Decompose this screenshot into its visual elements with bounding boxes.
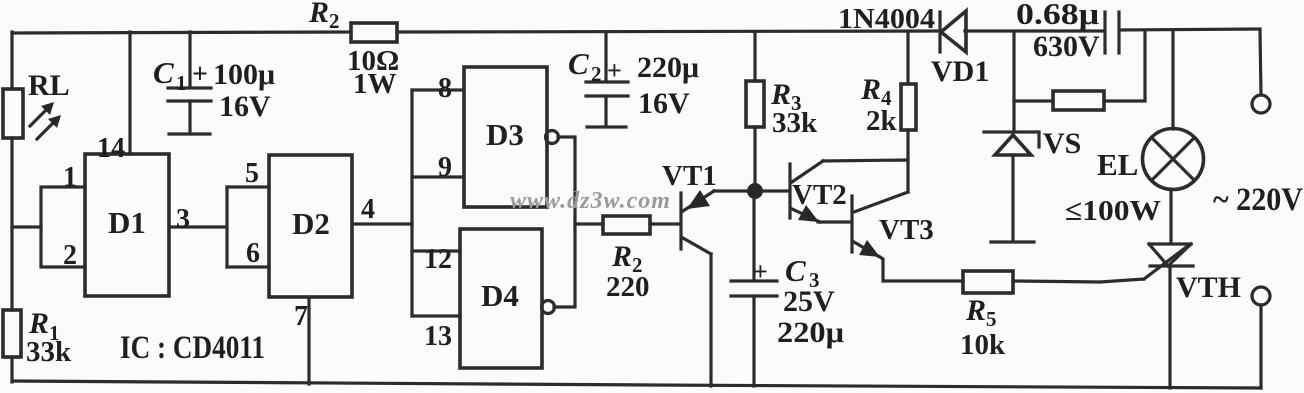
svg-text:IC : CD4011: IC : CD4011 (120, 330, 265, 366)
wire D4 pin13 stub (412, 314, 460, 317)
wire left rail upper (10, 32, 13, 89)
svg-text:1W: 1W (353, 68, 397, 100)
resistor R4 (860, 32, 916, 192)
wire VT1 collector down (709, 254, 712, 386)
svg-text:2: 2 (329, 9, 340, 33)
svg-text:33k: 33k (26, 336, 72, 368)
svg-text:25V: 25V (783, 285, 835, 318)
triac VTH (1144, 244, 1241, 304)
wire VT2 emitter to VT3 base (818, 220, 851, 223)
wire left rail lower (10, 357, 13, 382)
svg-text:4: 4 (361, 194, 375, 225)
svg-text:6: 6 (246, 238, 260, 269)
D4 output bubble (542, 301, 555, 314)
svg-text:D2: D2 (292, 206, 330, 241)
svg-text:220μ: 220μ (777, 316, 844, 349)
wire left rail middle (10, 138, 13, 310)
wire D4 output (554, 224, 575, 307)
gate D3 (464, 67, 547, 207)
svg-text:100μ: 100μ (213, 58, 275, 91)
node 14 wire (128, 32, 131, 154)
wire D1 input pin2 (41, 227, 85, 267)
resistor R1 (3, 307, 72, 368)
node junction dot (747, 183, 763, 199)
svg-text:VTH: VTH (1176, 271, 1241, 304)
svg-text:EL: EL (1097, 147, 1138, 182)
gate D2 (269, 155, 352, 297)
wire D3 output (558, 137, 575, 224)
svg-text:3: 3 (176, 204, 190, 235)
svg-text:R: R (860, 73, 881, 106)
photoresistor RL (3, 69, 70, 139)
svg-text:~ 220V: ~ 220V (1213, 182, 1303, 218)
svg-text:R: R (965, 294, 986, 327)
zener diode VS (984, 127, 1081, 242)
svg-text:R: R (308, 0, 329, 29)
gate D4 (460, 229, 542, 368)
diode VD1 (838, 3, 989, 88)
svg-text:RL: RL (28, 69, 70, 102)
svg-text:C: C (568, 46, 589, 81)
gate D1 (85, 154, 169, 296)
capacitor 0.68u 630V (1016, 0, 1119, 63)
svg-text:+: + (607, 56, 622, 85)
svg-text:VD1: VD1 (931, 55, 989, 88)
svg-text:1: 1 (63, 162, 77, 193)
svg-text:2: 2 (63, 240, 77, 271)
wire to base resistor (575, 222, 603, 225)
svg-text:+: + (192, 59, 208, 90)
wire top rail right of capacitor (1120, 29, 1260, 30)
svg-text:D3: D3 (486, 117, 524, 152)
terminal top right (1252, 31, 1270, 113)
svg-text:C: C (153, 55, 174, 90)
wire D3 D4 input bracket (410, 90, 413, 316)
wire D1 output pin3 (169, 225, 227, 228)
resistor R5 (960, 271, 1013, 361)
svg-text:VT2: VT2 (792, 179, 847, 211)
resistor R2 10ohm (308, 0, 399, 100)
svg-text:VS: VS (1043, 127, 1081, 160)
svg-text:D1: D1 (108, 205, 146, 240)
D3 output bubble (546, 131, 559, 144)
wire node to VT2 base (762, 189, 788, 192)
svg-text:8: 8 (438, 73, 452, 104)
svg-text:1: 1 (176, 71, 187, 95)
svg-text:5: 5 (245, 158, 259, 189)
wire VT2 collector horizontal (823, 160, 908, 161)
svg-text:www.dz3w.com: www.dz3w.com (510, 188, 671, 214)
svg-text:7: 7 (294, 301, 308, 332)
resistor R3 (746, 32, 818, 185)
svg-text:220μ: 220μ (637, 51, 699, 84)
wire D2 pin7 to ground rail (307, 297, 310, 384)
svg-text:10k: 10k (960, 329, 1006, 361)
wire top rail mid segment (397, 31, 940, 32)
wire top rail right of diode (965, 29, 1104, 32)
svg-text:33k: 33k (772, 107, 818, 139)
capacitor C3 (731, 198, 844, 386)
lamp EL (1065, 30, 1204, 227)
svg-text:220: 220 (606, 271, 650, 303)
wire bottom rail (12, 381, 1261, 388)
svg-text:630V: 630V (1033, 30, 1100, 63)
wire D2 pin6 stub (227, 265, 269, 268)
wire lamp to triac (1169, 189, 1172, 242)
wire triac to bottom rail (1168, 266, 1171, 388)
svg-text:C: C (785, 253, 806, 288)
transistor VT3 (852, 192, 934, 257)
snubber resistor (1014, 32, 1145, 110)
svg-text:13: 13 (424, 321, 452, 352)
svg-text:2: 2 (591, 62, 602, 86)
svg-text:1N4004: 1N4004 (838, 3, 935, 35)
svg-text:0.68μ: 0.68μ (1016, 0, 1099, 31)
wire top rail left segment (12, 32, 351, 33)
svg-text:≤100W: ≤100W (1065, 195, 1161, 227)
svg-text:+: + (753, 257, 768, 286)
wire divider tap to D1 inputs (12, 187, 85, 227)
transistor VT1 (662, 160, 717, 254)
svg-text:14: 14 (97, 133, 125, 164)
wire D2 input bracket (225, 187, 228, 267)
capacitor C1 (153, 32, 275, 134)
wire R5 to triac gate (1013, 279, 1144, 282)
wire D3 pin9 stub (412, 175, 464, 178)
wire D3 pin8 stub (412, 88, 464, 91)
svg-text:D4: D4 (481, 278, 519, 313)
transistor VT2 (790, 161, 847, 222)
wire D2 output pin4 (352, 222, 412, 225)
svg-text:2k: 2k (866, 105, 898, 137)
wire D4 pin12 stub (412, 249, 460, 252)
svg-text:VT3: VT3 (879, 214, 934, 246)
resistor R2 220 (603, 216, 650, 303)
capacitor C2 (568, 32, 699, 127)
svg-text:5: 5 (986, 307, 997, 331)
wire R2 to VT1 base (650, 222, 679, 225)
svg-text:16V: 16V (219, 90, 271, 123)
svg-text:16V: 16V (638, 87, 690, 120)
wire VT1 emitter to node (714, 189, 748, 192)
svg-text:R: R (611, 240, 632, 273)
wire VT3 emitter down (880, 257, 963, 281)
svg-text:12: 12 (424, 244, 452, 275)
terminal bottom right (1252, 287, 1270, 388)
wire D2 pin5 stub (227, 185, 269, 188)
svg-text:9: 9 (438, 152, 452, 183)
wire snubber left vertical (1012, 32, 1015, 131)
